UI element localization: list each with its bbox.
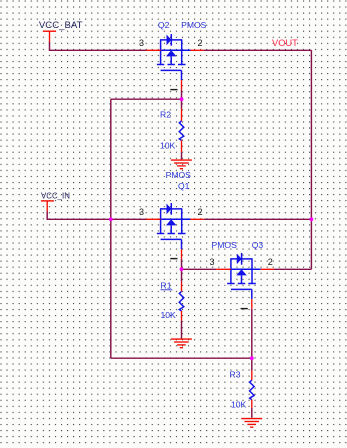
junction Q1 source node B bbox=[180, 267, 184, 271]
junction VCC_IN with left bus bbox=[109, 217, 113, 221]
svg-text:3: 3 bbox=[139, 207, 144, 217]
svg-text:Q2: Q2 bbox=[158, 20, 170, 30]
wire node B to Q3 gate bbox=[182, 268, 217, 270]
svg-text:10K: 10K bbox=[160, 141, 176, 151]
wire right vertical VOUT bus bbox=[310, 50, 312, 269]
wire R1 to ground bbox=[181, 321, 183, 339]
wire Q2 drain to VOUT corner bbox=[204, 49, 312, 51]
svg-text:3: 3 bbox=[139, 38, 144, 48]
wire node C to R3 bbox=[251, 358, 253, 370]
junction at Q2 source bbox=[180, 97, 184, 101]
wire Q1 source down bbox=[181, 259, 183, 270]
transistor Q1 bbox=[146, 203, 204, 259]
svg-text:VOUT: VOUT bbox=[272, 38, 298, 48]
power port VCC_IN bbox=[41, 191, 70, 211]
svg-text:Q3: Q3 bbox=[252, 240, 264, 250]
wire node B to R1 bbox=[181, 269, 183, 282]
wire Q3 source down bbox=[251, 309, 253, 358]
svg-text:VCC_IN: VCC_IN bbox=[41, 191, 70, 200]
transistor Q3 bbox=[216, 253, 274, 309]
wire left bus vertical bbox=[110, 99, 112, 358]
wire VCC_IN to Q1 gate bbox=[47, 211, 146, 219]
junction node C bottom bbox=[250, 356, 254, 360]
svg-text:3: 3 bbox=[209, 257, 214, 267]
transistor Q2 bbox=[146, 34, 204, 90]
wire Q2 source down bbox=[181, 90, 183, 99]
svg-text:VCC_BAT: VCC_BAT bbox=[39, 20, 83, 31]
wire node A to R2 bbox=[181, 99, 183, 108]
ground below R1 bbox=[171, 339, 192, 348]
svg-text:2: 2 bbox=[198, 207, 203, 217]
svg-text:R3: R3 bbox=[230, 369, 241, 379]
wire right bottom to Q3 drain bbox=[274, 268, 311, 270]
resistor R2 bbox=[179, 109, 184, 153]
ground below R3 bbox=[241, 419, 262, 428]
svg-text:R2: R2 bbox=[160, 110, 171, 120]
svg-text:2: 2 bbox=[198, 38, 203, 48]
svg-text:2: 2 bbox=[268, 257, 273, 267]
label R1 underlined bbox=[161, 280, 173, 290]
svg-text:R1: R1 bbox=[161, 280, 172, 290]
junction Q1 drain at VOUT bus bbox=[310, 217, 314, 221]
power port VCC_BAT bbox=[39, 20, 83, 42]
wire horizontal at node A bbox=[111, 98, 182, 100]
wire Q1 drain to VOUT bus bbox=[204, 218, 312, 220]
svg-text:10K: 10K bbox=[231, 400, 247, 410]
ground below R2 bbox=[171, 160, 192, 169]
svg-text:PMOS: PMOS bbox=[166, 170, 192, 180]
wire R3 to ground bbox=[251, 408, 253, 418]
resistor R1 bbox=[179, 282, 184, 321]
resistor R3 bbox=[250, 371, 255, 408]
wire VCC_BAT to Q2 gate bbox=[50, 42, 147, 51]
svg-text:PMOS: PMOS bbox=[181, 20, 207, 30]
wire R2 to ground bbox=[181, 152, 183, 160]
svg-text:10K: 10K bbox=[161, 310, 177, 320]
wire left bus bottom horizontal bbox=[111, 357, 252, 359]
svg-text:Q1: Q1 bbox=[178, 181, 190, 191]
svg-text:PMOS: PMOS bbox=[212, 240, 238, 250]
